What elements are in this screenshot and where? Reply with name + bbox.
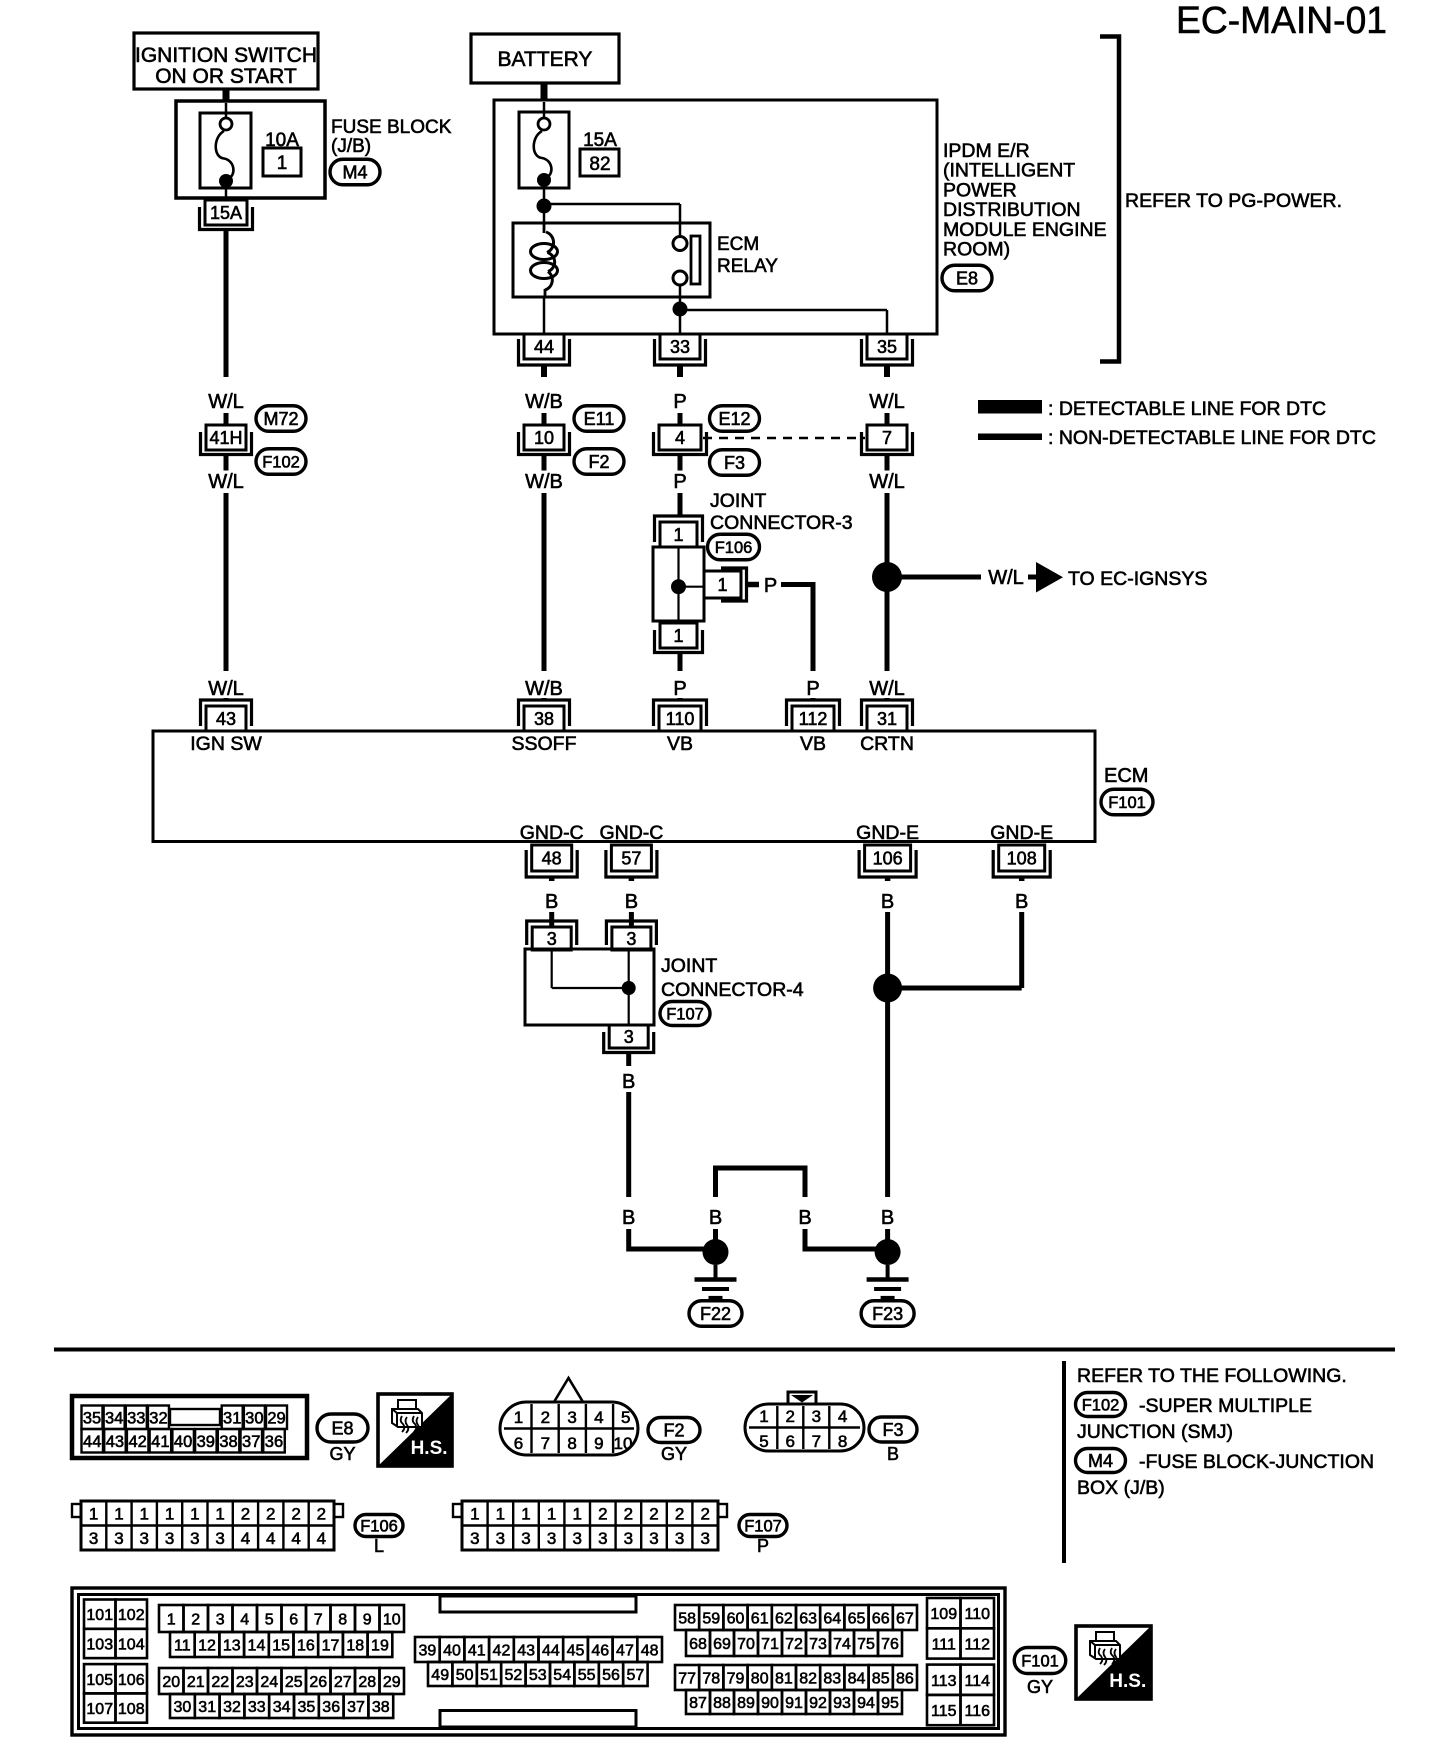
svg-text:110: 110 bbox=[666, 709, 695, 729]
svg-text:W/L: W/L bbox=[208, 678, 244, 700]
svg-text:52: 52 bbox=[505, 1667, 523, 1684]
svg-text:115: 115 bbox=[931, 1703, 957, 1720]
svg-text:M72: M72 bbox=[263, 409, 298, 429]
svg-text:79: 79 bbox=[727, 1670, 745, 1687]
svg-text:75: 75 bbox=[857, 1636, 875, 1653]
svg-text:GY: GY bbox=[661, 1444, 687, 1464]
svg-text:62: 62 bbox=[775, 1610, 793, 1627]
svg-text:6: 6 bbox=[514, 1434, 523, 1453]
svg-text:33: 33 bbox=[248, 1699, 266, 1716]
svg-text:F2: F2 bbox=[588, 452, 609, 472]
svg-text:1: 1 bbox=[89, 1505, 98, 1524]
svg-text:W/L: W/L bbox=[208, 471, 244, 493]
svg-text:7: 7 bbox=[882, 428, 892, 448]
svg-text:82: 82 bbox=[589, 154, 610, 175]
svg-text:6: 6 bbox=[289, 1611, 298, 1628]
svg-text:10: 10 bbox=[383, 1611, 401, 1628]
svg-text:40: 40 bbox=[443, 1642, 461, 1659]
svg-text:34: 34 bbox=[105, 1410, 123, 1428]
svg-text:W/L: W/L bbox=[869, 678, 905, 700]
svg-text:W/B: W/B bbox=[525, 678, 563, 700]
svg-text:4: 4 bbox=[291, 1529, 300, 1548]
svg-text:8: 8 bbox=[338, 1611, 347, 1628]
svg-text:2: 2 bbox=[598, 1505, 607, 1524]
svg-text:B: B bbox=[798, 1207, 811, 1229]
svg-text:2: 2 bbox=[541, 1408, 550, 1427]
svg-text:P: P bbox=[673, 391, 686, 413]
svg-text:1: 1 bbox=[167, 1611, 176, 1628]
svg-text:90: 90 bbox=[761, 1695, 779, 1712]
svg-text:L: L bbox=[374, 1536, 384, 1556]
svg-text:ECM: ECM bbox=[717, 234, 759, 255]
svg-text:M4: M4 bbox=[1088, 1451, 1113, 1471]
svg-text:F107: F107 bbox=[666, 1005, 704, 1023]
svg-text:3: 3 bbox=[216, 1611, 225, 1628]
svg-text:B: B bbox=[622, 1071, 635, 1093]
svg-text:50: 50 bbox=[456, 1667, 474, 1684]
svg-text:W/L: W/L bbox=[208, 391, 244, 413]
svg-text:61: 61 bbox=[751, 1610, 769, 1627]
svg-text:31: 31 bbox=[877, 709, 897, 729]
svg-text:7: 7 bbox=[314, 1611, 323, 1628]
svg-text:64: 64 bbox=[823, 1610, 841, 1627]
svg-text:16: 16 bbox=[297, 1637, 315, 1654]
svg-text:31: 31 bbox=[198, 1699, 216, 1716]
svg-text:2: 2 bbox=[675, 1505, 684, 1524]
svg-text:B: B bbox=[1015, 891, 1028, 913]
svg-text:P: P bbox=[673, 678, 686, 700]
svg-text:4: 4 bbox=[266, 1529, 275, 1548]
svg-text:VB: VB bbox=[800, 733, 826, 755]
svg-text:9: 9 bbox=[363, 1611, 372, 1628]
svg-text:94: 94 bbox=[857, 1695, 875, 1712]
svg-text:E12: E12 bbox=[718, 409, 750, 429]
svg-text:108: 108 bbox=[118, 1701, 145, 1718]
svg-text:70: 70 bbox=[737, 1636, 755, 1653]
svg-text:-FUSE BLOCK-JUNCTION: -FUSE BLOCK-JUNCTION bbox=[1139, 1451, 1374, 1473]
svg-text:21: 21 bbox=[187, 1674, 205, 1691]
svg-text:53: 53 bbox=[529, 1667, 547, 1684]
svg-text:40: 40 bbox=[174, 1433, 192, 1451]
svg-text:8: 8 bbox=[567, 1434, 576, 1453]
svg-text:VB: VB bbox=[667, 733, 693, 755]
svg-text:B: B bbox=[887, 1444, 899, 1464]
svg-text:30: 30 bbox=[174, 1699, 192, 1716]
svg-text:17: 17 bbox=[322, 1637, 340, 1654]
svg-text:GND-E: GND-E bbox=[856, 822, 919, 844]
svg-text:CRTN: CRTN bbox=[860, 733, 914, 755]
svg-text:66: 66 bbox=[872, 1610, 890, 1627]
svg-text:18: 18 bbox=[346, 1637, 364, 1654]
svg-text:POWER: POWER bbox=[943, 179, 1017, 201]
svg-text:4: 4 bbox=[594, 1408, 603, 1427]
svg-text:102: 102 bbox=[118, 1607, 145, 1624]
svg-text:82: 82 bbox=[799, 1670, 817, 1687]
svg-text:3: 3 bbox=[114, 1529, 123, 1548]
svg-text:36: 36 bbox=[322, 1699, 340, 1716]
svg-text:BATTERY: BATTERY bbox=[498, 48, 593, 71]
svg-text:H.S.: H.S. bbox=[411, 1438, 448, 1459]
svg-text:42: 42 bbox=[128, 1433, 146, 1451]
svg-text:30: 30 bbox=[245, 1410, 263, 1428]
svg-text:B: B bbox=[881, 1207, 894, 1229]
svg-text:93: 93 bbox=[833, 1695, 851, 1712]
svg-text:39: 39 bbox=[418, 1642, 436, 1659]
svg-text:P: P bbox=[673, 471, 686, 493]
svg-text:27: 27 bbox=[334, 1674, 352, 1691]
svg-text:JUNCTION (SMJ): JUNCTION (SMJ) bbox=[1077, 1421, 1233, 1443]
svg-text:77: 77 bbox=[678, 1670, 696, 1687]
svg-text:4: 4 bbox=[317, 1529, 326, 1548]
svg-text:41H: 41H bbox=[209, 428, 242, 448]
svg-text:26: 26 bbox=[309, 1674, 327, 1691]
svg-text:1: 1 bbox=[547, 1505, 556, 1524]
svg-text:MODULE ENGINE: MODULE ENGINE bbox=[943, 219, 1107, 241]
svg-text:68: 68 bbox=[689, 1636, 707, 1653]
svg-text:5: 5 bbox=[621, 1408, 630, 1427]
svg-text:REFER TO THE FOLLOWING.: REFER TO THE FOLLOWING. bbox=[1077, 1365, 1347, 1387]
svg-text:15A: 15A bbox=[210, 203, 242, 223]
svg-text:29: 29 bbox=[383, 1674, 401, 1691]
svg-text:8: 8 bbox=[838, 1432, 847, 1451]
svg-text:1: 1 bbox=[165, 1505, 174, 1524]
svg-text:F3: F3 bbox=[724, 453, 745, 473]
svg-text:3: 3 bbox=[140, 1529, 149, 1548]
svg-text:4: 4 bbox=[838, 1407, 847, 1426]
svg-text:111: 111 bbox=[932, 1636, 956, 1653]
svg-text:B: B bbox=[709, 1207, 722, 1229]
svg-text:9: 9 bbox=[594, 1434, 603, 1453]
svg-text:12: 12 bbox=[198, 1637, 216, 1654]
svg-text:104: 104 bbox=[118, 1636, 145, 1653]
svg-text:28: 28 bbox=[358, 1674, 376, 1691]
svg-text:H.S.: H.S. bbox=[1109, 1671, 1146, 1692]
svg-text:32: 32 bbox=[149, 1410, 167, 1428]
svg-text:55: 55 bbox=[578, 1667, 596, 1684]
svg-text:1: 1 bbox=[717, 575, 727, 595]
svg-text:3: 3 bbox=[521, 1529, 530, 1548]
svg-text:TO EC-IGNSYS: TO EC-IGNSYS bbox=[1068, 568, 1207, 590]
svg-text:JOINT: JOINT bbox=[710, 490, 766, 512]
svg-text:34: 34 bbox=[273, 1699, 291, 1716]
svg-text:B: B bbox=[625, 891, 638, 913]
svg-text:3: 3 bbox=[165, 1529, 174, 1548]
svg-text:86: 86 bbox=[896, 1670, 914, 1687]
svg-text:37: 37 bbox=[347, 1699, 365, 1716]
svg-text:GY: GY bbox=[329, 1444, 355, 1464]
svg-text:2: 2 bbox=[624, 1505, 633, 1524]
svg-text:54: 54 bbox=[553, 1667, 571, 1684]
svg-text:69: 69 bbox=[713, 1636, 731, 1653]
svg-text:110: 110 bbox=[964, 1606, 990, 1623]
svg-text:23: 23 bbox=[236, 1674, 254, 1691]
svg-text:P: P bbox=[757, 1536, 769, 1556]
svg-text:IPDM E/R: IPDM E/R bbox=[943, 140, 1030, 162]
svg-text:F3: F3 bbox=[882, 1420, 903, 1440]
svg-text:116: 116 bbox=[964, 1703, 990, 1720]
svg-text:3: 3 bbox=[649, 1529, 658, 1548]
svg-text:6: 6 bbox=[785, 1432, 794, 1451]
svg-text:43: 43 bbox=[216, 709, 236, 729]
svg-text:112: 112 bbox=[799, 709, 828, 729]
svg-text:44: 44 bbox=[542, 1642, 560, 1659]
svg-text:51: 51 bbox=[480, 1667, 498, 1684]
svg-text:B: B bbox=[545, 891, 558, 913]
svg-text:3: 3 bbox=[547, 1529, 556, 1548]
svg-text:M4: M4 bbox=[342, 162, 367, 182]
svg-text:1: 1 bbox=[190, 1505, 199, 1524]
svg-text:46: 46 bbox=[591, 1642, 609, 1659]
svg-text:F102: F102 bbox=[262, 453, 300, 471]
svg-text:3: 3 bbox=[598, 1529, 607, 1548]
svg-text:103: 103 bbox=[86, 1636, 113, 1653]
svg-text:F101: F101 bbox=[1021, 1652, 1059, 1670]
svg-text:2: 2 bbox=[191, 1611, 200, 1628]
svg-text:IGN SW: IGN SW bbox=[190, 733, 262, 755]
svg-text:GND-E: GND-E bbox=[990, 822, 1053, 844]
svg-text:88: 88 bbox=[713, 1695, 731, 1712]
svg-text:3: 3 bbox=[675, 1529, 684, 1548]
svg-text:P: P bbox=[764, 575, 777, 597]
svg-text:101: 101 bbox=[86, 1607, 113, 1624]
svg-text:73: 73 bbox=[809, 1636, 827, 1653]
svg-text:3: 3 bbox=[567, 1408, 576, 1427]
svg-text:85: 85 bbox=[872, 1670, 890, 1687]
svg-text:65: 65 bbox=[848, 1610, 866, 1627]
svg-text:39: 39 bbox=[197, 1433, 215, 1451]
svg-text:2: 2 bbox=[317, 1505, 326, 1524]
svg-text:REFER TO PG-POWER.: REFER TO PG-POWER. bbox=[1125, 190, 1342, 212]
svg-text:SSOFF: SSOFF bbox=[511, 733, 576, 755]
svg-text:60: 60 bbox=[727, 1610, 745, 1627]
svg-text:4: 4 bbox=[241, 1529, 250, 1548]
svg-text:W/L: W/L bbox=[988, 567, 1024, 589]
svg-text:63: 63 bbox=[799, 1610, 817, 1627]
svg-text:95: 95 bbox=[881, 1695, 899, 1712]
svg-text:57: 57 bbox=[627, 1667, 645, 1684]
svg-text:49: 49 bbox=[431, 1667, 449, 1684]
svg-text:GND-C: GND-C bbox=[599, 822, 663, 844]
svg-text:1: 1 bbox=[673, 525, 683, 545]
svg-text:2: 2 bbox=[241, 1505, 250, 1524]
svg-text:: NON-DETECTABLE LINE FOR DTC: : NON-DETECTABLE LINE FOR DTC bbox=[1048, 427, 1376, 449]
svg-text:91: 91 bbox=[785, 1695, 803, 1712]
svg-text:1: 1 bbox=[514, 1408, 523, 1427]
svg-text:3: 3 bbox=[572, 1529, 581, 1548]
svg-text:CONNECTOR-3: CONNECTOR-3 bbox=[710, 512, 853, 534]
svg-text:B: B bbox=[881, 891, 894, 913]
svg-text:83: 83 bbox=[823, 1670, 841, 1687]
svg-text:67: 67 bbox=[896, 1610, 914, 1627]
svg-text:11: 11 bbox=[174, 1637, 191, 1654]
svg-text:ECM: ECM bbox=[1104, 765, 1148, 787]
svg-text:F107: F107 bbox=[744, 1517, 782, 1535]
svg-text:1: 1 bbox=[572, 1505, 581, 1524]
svg-text:92: 92 bbox=[809, 1695, 827, 1712]
svg-text:59: 59 bbox=[702, 1610, 720, 1627]
svg-text:3: 3 bbox=[547, 929, 557, 949]
svg-text:1: 1 bbox=[521, 1505, 530, 1524]
svg-text:58: 58 bbox=[678, 1610, 696, 1627]
svg-text:35: 35 bbox=[298, 1699, 316, 1716]
svg-text:-SUPER MULTIPLE: -SUPER MULTIPLE bbox=[1139, 1395, 1312, 1417]
svg-text:10: 10 bbox=[614, 1434, 633, 1453]
svg-text:3: 3 bbox=[215, 1529, 224, 1548]
svg-text:GND-C: GND-C bbox=[520, 822, 584, 844]
svg-text:35: 35 bbox=[877, 337, 897, 357]
svg-text:48: 48 bbox=[542, 848, 562, 868]
svg-text:4: 4 bbox=[675, 428, 685, 448]
svg-text:108: 108 bbox=[1007, 848, 1037, 868]
svg-text:F101: F101 bbox=[1108, 794, 1146, 812]
svg-text:3: 3 bbox=[700, 1529, 709, 1548]
svg-text:1: 1 bbox=[496, 1505, 505, 1524]
svg-text:41: 41 bbox=[151, 1433, 169, 1451]
svg-text:71: 71 bbox=[761, 1636, 779, 1653]
svg-text:5: 5 bbox=[759, 1432, 768, 1451]
svg-text:89: 89 bbox=[737, 1695, 755, 1712]
svg-text:81: 81 bbox=[775, 1670, 793, 1687]
svg-text:105: 105 bbox=[86, 1672, 113, 1689]
svg-text:(J/B): (J/B) bbox=[331, 136, 371, 157]
svg-text:48: 48 bbox=[641, 1642, 659, 1659]
svg-text:3: 3 bbox=[812, 1407, 821, 1426]
svg-text:47: 47 bbox=[616, 1642, 634, 1659]
svg-text:E8: E8 bbox=[956, 268, 978, 288]
svg-text:35: 35 bbox=[83, 1410, 101, 1428]
svg-text:EC-MAIN-01: EC-MAIN-01 bbox=[1176, 0, 1387, 42]
svg-text:36: 36 bbox=[265, 1433, 283, 1451]
svg-text:84: 84 bbox=[848, 1670, 866, 1687]
svg-text:F106: F106 bbox=[360, 1517, 398, 1535]
svg-text:24: 24 bbox=[260, 1674, 278, 1691]
svg-text:1: 1 bbox=[673, 626, 683, 646]
svg-text:76: 76 bbox=[881, 1636, 899, 1653]
svg-text:F2: F2 bbox=[663, 1420, 684, 1440]
svg-text:1: 1 bbox=[114, 1505, 123, 1524]
svg-text:106: 106 bbox=[118, 1672, 145, 1689]
svg-text:F22: F22 bbox=[700, 1304, 731, 1324]
svg-text:3: 3 bbox=[89, 1529, 98, 1548]
svg-text:3: 3 bbox=[496, 1529, 505, 1548]
svg-text:14: 14 bbox=[248, 1637, 266, 1654]
svg-text:3: 3 bbox=[626, 929, 636, 949]
svg-text:57: 57 bbox=[621, 848, 641, 868]
svg-text:E11: E11 bbox=[584, 409, 615, 429]
svg-text:FUSE BLOCK: FUSE BLOCK bbox=[331, 117, 452, 138]
svg-text:ROOM): ROOM) bbox=[943, 239, 1010, 261]
svg-text:42: 42 bbox=[493, 1642, 511, 1659]
svg-text:1: 1 bbox=[759, 1407, 768, 1426]
svg-text:W/L: W/L bbox=[869, 391, 905, 413]
svg-text:1: 1 bbox=[140, 1505, 149, 1524]
svg-text:BOX (J/B): BOX (J/B) bbox=[1077, 1477, 1165, 1499]
svg-text:IGNITION SWITCH: IGNITION SWITCH bbox=[135, 44, 317, 67]
svg-text:114: 114 bbox=[964, 1673, 990, 1690]
svg-text:38: 38 bbox=[372, 1699, 390, 1716]
svg-text:19: 19 bbox=[371, 1637, 389, 1654]
svg-text:CONNECTOR-4: CONNECTOR-4 bbox=[661, 979, 804, 1001]
svg-text:44: 44 bbox=[534, 337, 554, 357]
svg-text:31: 31 bbox=[223, 1410, 241, 1428]
svg-text:80: 80 bbox=[751, 1670, 769, 1687]
svg-text:7: 7 bbox=[541, 1434, 550, 1453]
svg-text:74: 74 bbox=[833, 1636, 851, 1653]
svg-text:E8: E8 bbox=[331, 1418, 353, 1438]
svg-text:20: 20 bbox=[162, 1674, 180, 1691]
svg-text:1: 1 bbox=[215, 1505, 224, 1524]
svg-text:44: 44 bbox=[83, 1433, 101, 1451]
svg-text:107: 107 bbox=[86, 1701, 113, 1718]
svg-text:33: 33 bbox=[127, 1410, 145, 1428]
svg-text:: DETECTABLE LINE FOR DTC: : DETECTABLE LINE FOR DTC bbox=[1048, 398, 1326, 420]
svg-text:3: 3 bbox=[624, 1027, 634, 1047]
svg-text:W/L: W/L bbox=[869, 471, 905, 493]
svg-text:5: 5 bbox=[265, 1611, 274, 1628]
svg-text:2: 2 bbox=[649, 1505, 658, 1524]
svg-text:DISTRIBUTION: DISTRIBUTION bbox=[943, 199, 1081, 221]
svg-text:72: 72 bbox=[785, 1636, 803, 1653]
svg-text:F102: F102 bbox=[1082, 1396, 1120, 1414]
svg-text:B: B bbox=[622, 1207, 635, 1229]
svg-text:1: 1 bbox=[277, 153, 288, 174]
svg-text:P: P bbox=[806, 678, 819, 700]
svg-text:113: 113 bbox=[931, 1673, 957, 1690]
svg-text:25: 25 bbox=[285, 1674, 303, 1691]
svg-text:(INTELLIGENT: (INTELLIGENT bbox=[943, 160, 1075, 182]
svg-text:38: 38 bbox=[534, 709, 554, 729]
svg-text:ON OR START: ON OR START bbox=[155, 65, 297, 88]
svg-text:29: 29 bbox=[267, 1410, 285, 1428]
svg-text:37: 37 bbox=[242, 1433, 260, 1451]
svg-text:1: 1 bbox=[470, 1505, 479, 1524]
svg-text:W/B: W/B bbox=[525, 391, 563, 413]
svg-text:106: 106 bbox=[873, 848, 903, 868]
svg-text:56: 56 bbox=[602, 1667, 620, 1684]
svg-text:43: 43 bbox=[517, 1642, 535, 1659]
svg-text:RELAY: RELAY bbox=[717, 256, 778, 277]
svg-text:2: 2 bbox=[700, 1505, 709, 1524]
svg-text:43: 43 bbox=[106, 1433, 124, 1451]
svg-text:JOINT: JOINT bbox=[661, 955, 717, 977]
svg-text:7: 7 bbox=[812, 1432, 821, 1451]
svg-text:2: 2 bbox=[266, 1505, 275, 1524]
svg-text:38: 38 bbox=[219, 1433, 237, 1451]
svg-text:W/B: W/B bbox=[525, 471, 563, 493]
svg-text:2: 2 bbox=[785, 1407, 794, 1426]
svg-text:41: 41 bbox=[468, 1642, 486, 1659]
svg-text:GY: GY bbox=[1027, 1677, 1053, 1697]
svg-text:F106: F106 bbox=[715, 539, 753, 557]
svg-text:87: 87 bbox=[689, 1695, 707, 1712]
svg-text:3: 3 bbox=[624, 1529, 633, 1548]
svg-text:112: 112 bbox=[964, 1636, 990, 1653]
svg-text:10: 10 bbox=[534, 428, 554, 448]
svg-text:F23: F23 bbox=[872, 1304, 903, 1324]
svg-text:15: 15 bbox=[272, 1637, 290, 1654]
svg-text:22: 22 bbox=[211, 1674, 229, 1691]
svg-text:13: 13 bbox=[223, 1637, 241, 1654]
svg-text:33: 33 bbox=[670, 337, 690, 357]
svg-text:3: 3 bbox=[470, 1529, 479, 1548]
svg-text:3: 3 bbox=[190, 1529, 199, 1548]
svg-text:2: 2 bbox=[291, 1505, 300, 1524]
svg-text:78: 78 bbox=[702, 1670, 720, 1687]
svg-text:32: 32 bbox=[223, 1699, 241, 1716]
svg-text:109: 109 bbox=[930, 1606, 957, 1623]
svg-text:4: 4 bbox=[240, 1611, 249, 1628]
svg-text:45: 45 bbox=[567, 1642, 585, 1659]
